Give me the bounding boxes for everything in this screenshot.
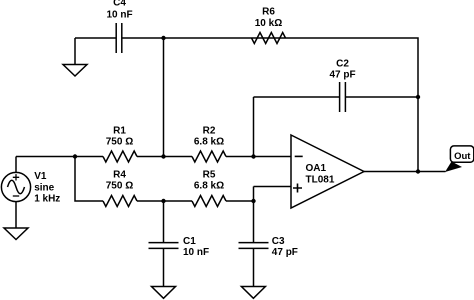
svg-text:47 pF: 47 pF [329, 70, 355, 81]
svg-text:1 kHz: 1 kHz [34, 194, 60, 205]
svg-text:R1: R1 [113, 126, 126, 137]
svg-text:C2: C2 [336, 59, 349, 70]
svg-text:V1: V1 [34, 171, 47, 182]
svg-text:10 nF: 10 nF [106, 10, 132, 21]
svg-text:C1: C1 [183, 236, 196, 247]
svg-text:sine: sine [34, 182, 54, 193]
svg-text:R6: R6 [262, 7, 275, 18]
svg-text:750 Ω: 750 Ω [106, 137, 133, 148]
svg-text:Out: Out [454, 151, 471, 162]
svg-text:OA1: OA1 [306, 163, 327, 174]
svg-text:C3: C3 [272, 236, 285, 247]
svg-text:6.8 kΩ: 6.8 kΩ [194, 181, 224, 192]
svg-text:R5: R5 [203, 170, 216, 181]
svg-text:10 kΩ: 10 kΩ [255, 18, 282, 29]
svg-text:10 nF: 10 nF [183, 247, 209, 258]
svg-text:750 Ω: 750 Ω [106, 181, 133, 192]
svg-text:R2: R2 [203, 126, 216, 137]
svg-text:47 pF: 47 pF [272, 247, 298, 258]
svg-text:R4: R4 [113, 170, 126, 181]
svg-text:6.8 kΩ: 6.8 kΩ [194, 137, 224, 148]
svg-text:TL081: TL081 [306, 174, 335, 185]
svg-text:C4: C4 [113, 0, 126, 9]
